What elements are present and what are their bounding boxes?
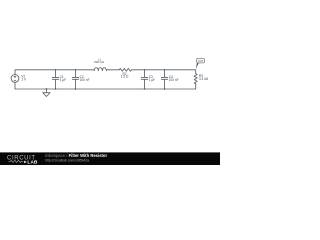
svg-text:100 nF: 100 nF xyxy=(80,78,90,82)
svg-text:1 µF: 1 µF xyxy=(149,78,155,82)
junction dots xyxy=(46,69,166,90)
wire top left segment xyxy=(15,69,94,71)
node dot C1 bottom xyxy=(55,88,57,90)
ground xyxy=(43,89,50,97)
wire bottom xyxy=(15,88,196,90)
V2 plus sign xyxy=(14,76,16,81)
capacitor C3 xyxy=(141,70,147,89)
node dot C2 top xyxy=(75,69,77,71)
labels xyxy=(21,57,209,82)
capacitor C4 xyxy=(161,70,167,89)
svg-text:500 mH: 500 mH xyxy=(94,60,104,64)
footer bar xyxy=(0,152,220,165)
node dot C2 bottom xyxy=(75,88,77,90)
capacitor C2 xyxy=(72,70,78,89)
svg-text:mikespace / Filter With Resist: mikespace / Filter With Resistor xyxy=(45,153,107,158)
node dot C1 top xyxy=(55,69,57,71)
svg-text:OUT: OUT xyxy=(198,59,204,63)
resistor R3 xyxy=(194,74,197,84)
wire source bottom lead xyxy=(14,82,16,89)
wire right branch bottom xyxy=(195,84,197,89)
V2 minus sign xyxy=(14,79,16,81)
node flag OUT xyxy=(196,58,205,69)
wire top between R2 and right corner xyxy=(132,69,196,71)
node dot C4 bottom xyxy=(164,88,166,90)
svg-text:1 µF: 1 µF xyxy=(60,78,66,82)
node dot C4 top xyxy=(164,69,166,71)
svg-text:http://circuitlab.com/c/85942a: http://circuitlab.com/c/85942a xyxy=(45,159,89,163)
logo arrow xyxy=(24,161,26,164)
wire top between L1 and R2 xyxy=(106,69,119,71)
wire source top lead xyxy=(14,70,16,75)
svg-text:1.5 Ω: 1.5 Ω xyxy=(121,75,129,79)
capacitor C1 xyxy=(52,70,58,89)
voltage source V2 circle xyxy=(11,75,19,83)
node dot C3 top xyxy=(144,69,146,71)
svg-text:LAB: LAB xyxy=(27,159,38,164)
resistor R2 xyxy=(119,68,131,71)
node dot ground xyxy=(46,88,48,90)
svg-text:100 nF: 100 nF xyxy=(169,78,179,82)
node dot C3 bottom xyxy=(144,88,146,90)
logo resistor zigzag xyxy=(9,160,24,162)
svg-text:3.3 kΩ: 3.3 kΩ xyxy=(199,77,209,81)
inductor L1 xyxy=(94,68,106,71)
wire right branch top xyxy=(195,70,197,74)
